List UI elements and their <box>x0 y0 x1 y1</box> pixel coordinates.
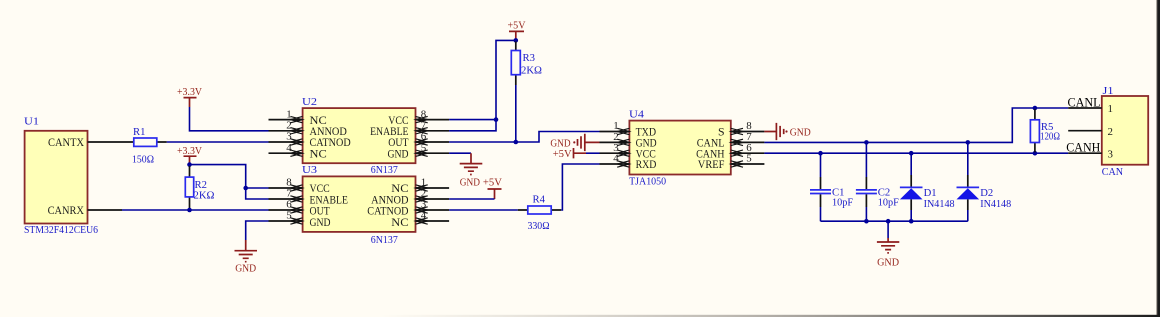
svg-text:120Ω: 120Ω <box>1040 130 1060 142</box>
wire +3.3V to U2 ANNOD <box>190 107 269 131</box>
wire U3 GND to ground <box>246 221 269 240</box>
svg-text:5: 5 <box>746 153 752 165</box>
svg-text:R3: R3 <box>523 52 536 64</box>
node U2 VCC junction <box>494 117 499 122</box>
svg-text:GND: GND <box>235 262 256 274</box>
capacitor C2 <box>856 142 899 221</box>
svg-text:10pF: 10pF <box>878 196 899 208</box>
U3 pin 7 ENABLE <box>269 188 303 203</box>
svg-text:CANTX: CANTX <box>48 135 84 149</box>
power ground GND (left of U4 pin 2) <box>550 134 599 151</box>
J1 pin 1 <box>1068 107 1102 109</box>
node R5/CANL junction <box>1033 106 1038 111</box>
node GND tap junction <box>886 219 891 224</box>
svg-text:U4: U4 <box>629 108 645 120</box>
node D1/rail junction <box>909 219 914 224</box>
U2 pin 7 ENABLE <box>416 120 450 135</box>
U4 pin 6 CANH <box>731 142 765 157</box>
svg-text:6N137: 6N137 <box>371 164 398 176</box>
svg-text:+3.3V: +3.3V <box>177 86 202 98</box>
wire ground rail (below C1-D2) <box>821 220 968 222</box>
node CANRX/R2 junction <box>187 208 192 213</box>
diode D2 <box>957 142 1012 221</box>
transceiver U4 <box>629 108 731 187</box>
U2 pin 8 VCC <box>416 108 450 123</box>
wire U3 ANNOD to +5V <box>449 198 494 200</box>
node U3 VCC junction <box>243 186 248 191</box>
ground GND (below U2) <box>460 153 483 189</box>
wire U2 OUT to U4 TXD <box>449 132 599 143</box>
svg-text:+5V: +5V <box>483 177 502 189</box>
svg-text:RXD: RXD <box>636 157 657 171</box>
U3 pin 8 VCC <box>269 177 303 192</box>
svg-text:IN4148: IN4148 <box>924 198 955 210</box>
U3 pin 2 ANNOD <box>416 188 450 203</box>
U2 pin 6 OUT <box>416 131 450 146</box>
svg-text:U3: U3 <box>302 164 318 176</box>
net label CANL <box>1068 94 1101 109</box>
svg-text:7: 7 <box>421 120 427 132</box>
svg-text:2KΩ: 2KΩ <box>521 65 542 77</box>
wire U2 GND pin <box>449 152 471 154</box>
diode D1 <box>900 153 955 221</box>
wire CANRX to U3 OUT <box>122 209 269 211</box>
svg-text:6: 6 <box>421 131 427 143</box>
U2 pin 3 CATNOD <box>269 131 303 146</box>
svg-text:2KΩ: 2KΩ <box>194 190 215 202</box>
node +3.3V junction <box>187 162 192 167</box>
wire rail to ground <box>887 221 889 238</box>
window edge bottom <box>380 315 1160 317</box>
ground GND (below rail) <box>877 238 899 269</box>
svg-text:R4: R4 <box>533 194 546 206</box>
resistor R5 <box>1030 109 1060 152</box>
svg-text:2: 2 <box>286 120 291 132</box>
svg-text:CANRX: CANRX <box>48 203 85 217</box>
svg-text:+3.3V: +3.3V <box>177 145 202 157</box>
svg-text:4: 4 <box>613 153 619 165</box>
U4 pin 8 S <box>731 120 765 135</box>
U1 pin CANRX <box>88 209 123 211</box>
svg-text:330Ω: 330Ω <box>528 220 550 232</box>
power +5V (left of U4 pin 3) <box>553 148 600 160</box>
svg-text:+5V: +5V <box>553 148 572 160</box>
node R5/CANH junction <box>1033 151 1038 156</box>
U2 pin 1 NC <box>269 108 303 123</box>
svg-text:5: 5 <box>421 142 427 154</box>
svg-text:GND: GND <box>877 257 899 269</box>
wire +5V to U2 VCC/ENABLE <box>449 40 516 130</box>
power +5V (to U3 ANNOD) <box>483 177 502 199</box>
svg-text:3: 3 <box>1108 149 1114 161</box>
MCU U1 <box>24 116 98 237</box>
svg-text:150Ω: 150Ω <box>132 153 154 165</box>
node C2/CANL junction <box>864 140 869 145</box>
svg-text:GND: GND <box>460 177 480 189</box>
wire R1 to U2 CATNOD <box>167 141 269 143</box>
svg-text:NC: NC <box>391 215 408 229</box>
node R3/OUT junction <box>514 140 519 145</box>
U3 pin 4 NC <box>416 210 450 225</box>
node +5V junction <box>514 38 519 43</box>
power +5V (top, above R3) <box>508 19 526 40</box>
U4 pin 2 GND <box>600 131 630 146</box>
U4 pin 5 VREF <box>731 153 765 168</box>
svg-text:TJA1050: TJA1050 <box>629 175 666 187</box>
node D2/CANL junction <box>966 140 971 145</box>
svg-text:4: 4 <box>286 142 292 154</box>
svg-text:NC: NC <box>310 146 327 160</box>
svg-text:STM32F412CEU6: STM32F412CEU6 <box>24 224 98 236</box>
U2 pin 2 ANNOD <box>269 120 303 135</box>
resistor R4 <box>518 194 561 233</box>
U4 pin 7 CANL <box>731 131 765 146</box>
U3 pin 3 CATNOD <box>416 199 450 214</box>
svg-text:GND: GND <box>310 215 331 229</box>
U2 pin 4 NC <box>269 142 303 157</box>
wire CANH net <box>764 152 1068 154</box>
power ground GND (right of U4 pin 8) <box>764 123 810 140</box>
ground GND (below U3) <box>235 240 258 274</box>
window edge right <box>1156 0 1160 317</box>
U3 pin 1 NC <box>416 177 450 192</box>
wire +3.3V to U3 VCC/ENABLE <box>190 165 269 199</box>
resistor R2 <box>185 165 214 210</box>
U1 pin CANTX <box>88 141 125 143</box>
svg-text:1: 1 <box>286 108 291 120</box>
J1 pin 2 <box>1068 130 1102 132</box>
svg-text:GND: GND <box>790 127 811 139</box>
J1 pin 3 <box>1068 152 1102 154</box>
svg-text:10pF: 10pF <box>832 196 853 208</box>
svg-text:GND: GND <box>388 146 409 160</box>
svg-text:6N137: 6N137 <box>371 234 398 246</box>
optocoupler U3 <box>302 164 416 246</box>
svg-text:5: 5 <box>286 210 292 222</box>
svg-text:1: 1 <box>1108 103 1113 115</box>
svg-text:CAN: CAN <box>1102 166 1123 178</box>
resistor R3 <box>511 42 542 143</box>
svg-text:J1: J1 <box>1103 85 1114 97</box>
optocoupler U2 <box>302 96 416 176</box>
node C1/CANH junction <box>818 151 823 156</box>
U4 pin 4 RXD <box>600 153 630 168</box>
svg-text:VREF: VREF <box>698 157 725 171</box>
svg-text:+5V: +5V <box>508 19 526 31</box>
U2 pin 5 GND <box>416 142 450 157</box>
U3 pin 6 OUT <box>269 199 303 214</box>
capacitor C1 <box>810 153 853 221</box>
connector J1 <box>1102 85 1148 178</box>
net label CANH <box>1066 140 1100 155</box>
wire CANL net <box>764 108 1068 142</box>
svg-text:2: 2 <box>1108 126 1113 138</box>
svg-text:U2: U2 <box>302 96 317 108</box>
power +3.3V (second, above R2) <box>177 145 202 165</box>
U3 pin 5 GND <box>269 210 303 225</box>
wire R4 to U4 RXD <box>561 164 599 210</box>
power +3.3V (top, to U2 ANNOD) <box>177 86 202 107</box>
svg-text:3: 3 <box>286 131 292 143</box>
svg-text:U1: U1 <box>24 116 39 128</box>
node D1/CANH junction <box>909 151 914 156</box>
svg-text:R1: R1 <box>133 126 146 138</box>
svg-text:4: 4 <box>421 210 427 222</box>
node C2/rail junction <box>864 219 869 224</box>
svg-text:8: 8 <box>421 108 427 120</box>
U4 pin 3 VCC <box>600 142 630 157</box>
wire U3 CATNOD to R4 <box>449 209 518 211</box>
resistor R1 <box>124 126 167 166</box>
svg-text:CANL: CANL <box>1068 94 1101 109</box>
U4 pin 1 TXD <box>600 120 630 135</box>
svg-text:IN4148: IN4148 <box>980 198 1011 210</box>
